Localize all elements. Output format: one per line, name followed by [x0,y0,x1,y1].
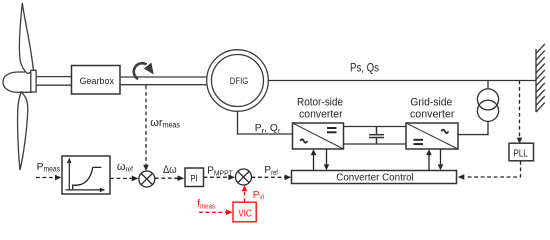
dashed arrow VIC to summing junction 2 (red) [242,185,248,202]
svg-text:Grid-side: Grid-side [410,97,452,109]
wind turbine hub plate [31,70,36,92]
wind turbine top blade [19,3,33,74]
svg-text:Gearbox: Gearbox [79,76,114,87]
PLL block [509,143,534,161]
svg-text:ωref: ωref [117,161,134,174]
DC bus wires [344,127,407,145]
PI controller block [185,168,204,187]
VIC block (red) [233,202,256,222]
svg-text:converter: converter [299,109,343,121]
arrow control to grid-side converter [426,149,432,170]
svg-text:VIC: VIC [238,209,252,220]
label Ps, Qs [350,63,379,75]
MPPT curve block [62,156,110,194]
svg-text:Ps, Qs: Ps, Qs [350,63,379,75]
label Grid-side converter [410,97,455,121]
dashed arrow dw to PI [155,175,184,181]
gearbox [72,66,121,95]
svg-text:PLL: PLL [513,148,528,159]
wind turbine nose cone [3,72,31,92]
label Pr, Qr [255,123,281,135]
label Pmeas [37,162,60,174]
dashed wire stator to PLL [517,81,523,144]
arrow grid-side converter to control [438,149,444,170]
label dw [163,164,177,176]
label f_meas (red) [197,199,215,211]
summing junction 1 [139,171,155,187]
svg-text:Pmeas: Pmeas [37,162,60,174]
label P_VI (red) [253,190,265,202]
svg-text:ωrmeas: ωrmeas [150,117,180,130]
dashed arrow f_meas to VIC (red) [199,210,233,216]
svg-text:PVI: PVI [253,190,265,202]
arrow control to rotor-side converter [311,149,317,170]
dashed arrow Pref to converter control [252,175,292,181]
label P_MPPT [207,165,233,177]
dashed wire PLL to converter control [458,161,521,180]
summing junction 2 [236,169,252,185]
svg-text:fmeas: fmeas [197,199,215,211]
dashed arrow PMPPT to summing junction 2 [204,175,236,181]
arrow rotor-side converter to control [324,149,330,170]
rotor-side converter U1 [293,123,344,149]
svg-text:PI: PI [190,173,197,184]
dashed arrow Pmeas to MPPT [36,175,61,181]
label wr_meas [150,117,180,130]
svg-text:converter: converter [410,109,455,121]
svg-text:Pr, Qr: Pr, Qr [255,123,281,135]
svg-text:Δω: Δω [163,164,177,176]
wire DFIG rotor to rotor-side converter [238,112,293,135]
stator line to grid [268,80,536,82]
wire transformer to grid-side converter [458,121,488,134]
svg-text:Converter Control: Converter Control [336,172,414,183]
low-speed shaft [36,77,71,86]
generator DFIG [207,50,269,112]
grid-side converter U2 [406,123,458,149]
label P_ref [264,165,278,177]
rotation arrow [134,63,154,80]
svg-text:DFIG: DFIG [230,76,249,87]
svg-text:Pref: Pref [264,165,278,177]
svg-text:Rotor-side: Rotor-side [297,97,343,109]
dashed wire wr_meas from shaft [143,86,149,172]
converter control block [292,171,457,184]
label wref [117,161,134,174]
DC link capacitor C1 [369,127,384,145]
wind turbine bottom blade [18,92,28,170]
transformer [477,81,498,122]
label Rotor-side converter [297,97,343,121]
dashed arrow wref to summing junction [110,176,138,182]
high-speed shaft [120,77,207,85]
grid wall [536,44,545,112]
